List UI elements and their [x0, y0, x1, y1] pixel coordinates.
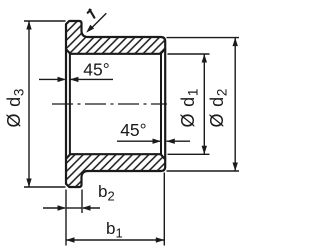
b2 dim line and arrows — [43, 207, 65, 209]
r leader line — [89, 13, 106, 30]
dimension Od2: extension lines — [167, 37, 240, 39]
svg-text:45°: 45° — [120, 120, 146, 140]
45deg top leader arrows — [39, 78, 65, 80]
svg-text:45°: 45° — [83, 60, 109, 80]
dimension b2: extension line right — [81, 190, 83, 214]
r label glyph — [88, 10, 95, 18]
left face line across bore — [65, 49, 67, 159]
upper section body (hatched) — [66, 21, 165, 54]
b1 dim line — [66, 239, 164, 241]
right bore chamfer projection line — [160, 54, 162, 154]
right face line across bore — [164, 49, 166, 159]
dimension Od3: extension lines — [24, 20, 66, 22]
r leader arrowhead — [86, 25, 94, 33]
dimension Od2: dim line — [234, 38, 236, 171]
lower section body (hatched, mirror) — [66, 154, 165, 187]
left bore chamfer projection line — [69, 54, 71, 154]
dimension Od1: dim line — [203, 54, 205, 154]
45deg bottom leader arrows — [117, 140, 161, 142]
dimension b1: extension lines — [65, 190, 67, 246]
centerline (axis) — [52, 103, 167, 105]
dimension Od1: extension lines — [168, 53, 210, 55]
dimension Od3: dim line — [28, 21, 30, 187]
